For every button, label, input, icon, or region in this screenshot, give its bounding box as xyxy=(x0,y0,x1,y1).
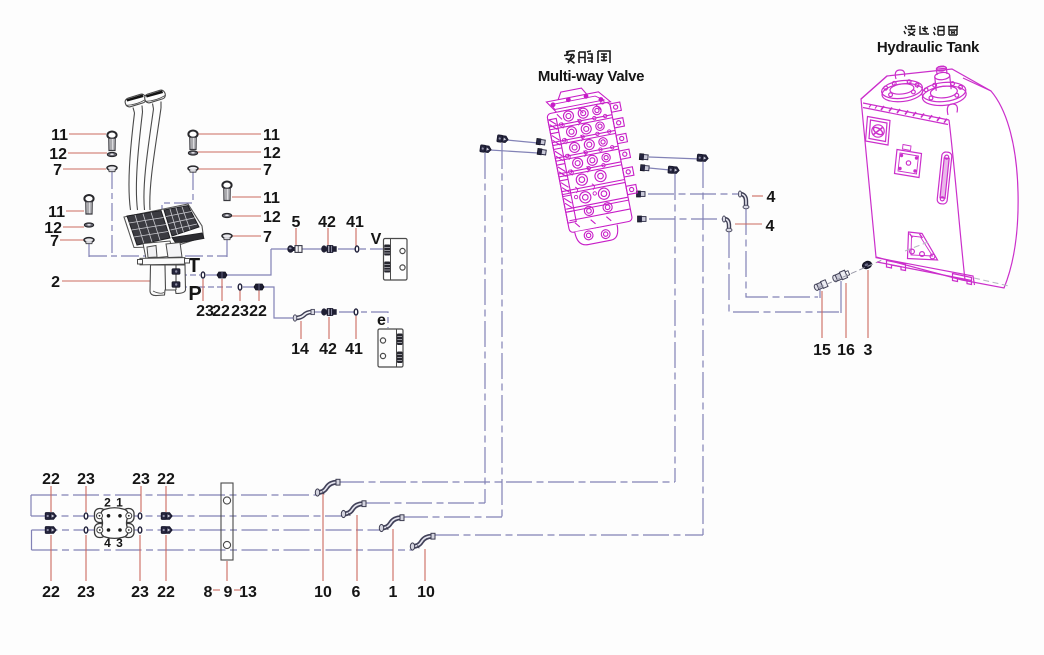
leader 4 lower xyxy=(735,223,762,225)
nut 7 top-right xyxy=(188,166,198,172)
svg-text:10: 10 xyxy=(314,584,332,601)
fitting elbow 6 xyxy=(341,501,366,518)
fitting valve right port A xyxy=(639,154,648,161)
svg-text:12: 12 xyxy=(263,145,281,162)
port bolt P on valve 2 xyxy=(172,282,180,288)
wire bolt alignment line top-right bolt xyxy=(162,172,193,211)
tank hook right xyxy=(947,104,957,115)
svg-text:15: 15 xyxy=(813,342,831,359)
wire T line solid xyxy=(206,249,271,275)
wire bottom hose line 3 xyxy=(32,529,384,531)
washer 12 top-left xyxy=(107,152,116,156)
leader 22 bottom-left bottom row 1 xyxy=(50,535,52,581)
fitting 23 ring line3 left xyxy=(84,527,88,533)
svg-text:23: 23 xyxy=(231,303,249,320)
leader 7 top-right xyxy=(198,168,261,170)
leader 10 first elbow xyxy=(322,493,324,581)
block V xyxy=(384,239,408,281)
svg-text:4: 4 xyxy=(767,189,776,206)
fitting on hose x502 top xyxy=(497,135,509,143)
wire valve right port B connector xyxy=(649,168,670,170)
leader 11 lower-left xyxy=(66,210,84,212)
svg-text:2: 2 xyxy=(51,274,60,291)
wire bottom hose line 1 xyxy=(31,494,318,496)
tank hook left xyxy=(895,70,904,79)
bolt 11 mid-right xyxy=(222,182,231,201)
washer 12 mid-right xyxy=(222,213,231,217)
svg-text:7: 7 xyxy=(263,229,272,246)
svg-text:23: 23 xyxy=(131,584,149,601)
leader 11 top-right xyxy=(198,133,261,135)
wire vertical hose x502 xyxy=(501,143,503,517)
leader 3 xyxy=(867,270,869,338)
tank bottom edge rim xyxy=(876,258,975,286)
svg-text:2: 2 xyxy=(104,496,111,510)
tank level gauge xyxy=(937,152,952,205)
fitting 23 ring line2 right xyxy=(138,513,142,519)
fitting 41 upper ring xyxy=(355,246,359,252)
svg-text:41: 41 xyxy=(346,214,364,231)
pedal plate dark edge wedge xyxy=(172,233,204,244)
leader 23 bottom-left bottom row 2 xyxy=(139,535,141,581)
fitting elbow 10 second xyxy=(410,533,435,550)
leader 12 lower-left xyxy=(63,226,84,228)
leader 16 xyxy=(845,283,847,338)
svg-text:11: 11 xyxy=(263,190,280,207)
wire V circuit line xyxy=(271,248,322,250)
fitting on hose x703 top xyxy=(697,154,709,162)
mounting bar 8 9 13 xyxy=(221,483,233,560)
fitting ring 23 on T line xyxy=(201,272,205,278)
wire vertical hose x485 xyxy=(484,153,486,503)
dashed line through fittings 15 16 3 to tank xyxy=(818,250,905,288)
leader 10 second elbow xyxy=(424,549,426,581)
fitting 22 dark on P line xyxy=(254,284,264,291)
leader 22 near P first xyxy=(221,279,223,301)
pedal mounting flange xyxy=(138,258,190,265)
leader 42 upper xyxy=(327,228,329,245)
wire U-turn left lines 1-2 xyxy=(30,495,32,516)
nut 7 lower-left xyxy=(84,238,94,244)
svg-text:22: 22 xyxy=(157,471,175,488)
svg-text:11: 11 xyxy=(48,204,65,221)
fitting 41 lower ring xyxy=(354,309,358,315)
wire V circuit dash to block V xyxy=(338,248,384,250)
leader 9 bar xyxy=(226,561,228,581)
manifold block bottom-left xyxy=(95,508,135,539)
svg-text:12: 12 xyxy=(263,209,281,226)
fitting 23 ring line2 left xyxy=(84,513,88,519)
leader 22 bottom-left top row 2 xyxy=(165,486,167,512)
svg-text:V: V xyxy=(371,231,382,248)
svg-text:8: 8 xyxy=(204,584,213,601)
svg-text:22: 22 xyxy=(157,584,175,601)
svg-text:7: 7 xyxy=(263,162,272,179)
svg-text:9: 9 xyxy=(224,584,233,601)
fitting elbow 4 upper xyxy=(738,191,749,209)
fitting elbow 10 first xyxy=(315,479,340,496)
wire P port dash xyxy=(181,286,233,288)
fitting 22 bottom-right line2 xyxy=(161,513,172,520)
leader 15 xyxy=(821,291,823,338)
fitting valve right port C xyxy=(637,191,646,197)
fitting on hose x485 top xyxy=(480,145,492,153)
svg-text:22: 22 xyxy=(249,303,267,320)
pedal handle right xyxy=(144,89,167,104)
wire elbow 10b to vertical x703 xyxy=(433,534,703,536)
tank bottom bracket xyxy=(908,232,938,260)
wire elbow 1 to vertical x502 xyxy=(402,516,502,518)
leader 42 lower xyxy=(328,317,330,339)
svg-text:16: 16 xyxy=(837,342,855,359)
multi-way valve assembly xyxy=(543,81,645,247)
leader 4 upper xyxy=(752,195,763,197)
bolt 11 top-right xyxy=(188,131,197,150)
tank foot right xyxy=(953,274,972,285)
wire bottom hose line 4 xyxy=(32,549,414,551)
leader 22 near P second xyxy=(258,290,260,301)
pedal base plate xyxy=(124,204,204,248)
fitting 42 lower xyxy=(321,308,337,316)
nut 7 top-left xyxy=(107,166,117,172)
svg-text:23: 23 xyxy=(77,584,95,601)
leader 41 upper xyxy=(355,228,357,246)
svg-text:12: 12 xyxy=(49,146,67,163)
wire T port dash xyxy=(181,274,200,276)
leader 7 top-left xyxy=(63,168,106,170)
fitting 22 bottom-left line2 left xyxy=(45,513,56,520)
wire elbow 6 to vertical x485 xyxy=(364,502,485,504)
tank front-right edge xyxy=(949,120,965,280)
leader 5 xyxy=(295,228,297,245)
fitting valve right port D xyxy=(638,216,647,222)
svg-text:13: 13 xyxy=(239,584,257,601)
port bolt T on valve 2 xyxy=(172,269,180,275)
pedal lever shafts xyxy=(129,113,135,210)
wire vertical hose x703 xyxy=(702,162,704,535)
wire hose elbow 4b down and right to fitting 16 xyxy=(729,232,839,312)
bolt 11 top-left xyxy=(107,132,116,151)
hydraulic tank xyxy=(861,64,1018,288)
svg-text:23: 23 xyxy=(132,471,150,488)
leader 7 mid-right xyxy=(232,235,261,237)
leader 1 elbow xyxy=(392,529,394,581)
wire e circuit line xyxy=(311,311,324,313)
leader 6 elbow xyxy=(356,515,358,581)
tank outline xyxy=(861,69,1018,288)
washer 12 top-right xyxy=(188,151,197,155)
title multi-way valve (chinese) 多路阀 drawn as strokes xyxy=(564,51,610,64)
nut 7 mid-right xyxy=(222,234,232,240)
wire vertical hose x675 xyxy=(674,174,676,482)
leader 12 mid-right xyxy=(232,215,261,217)
fitting valve right port B xyxy=(640,165,649,172)
wire pedal base line xyxy=(89,255,227,257)
svg-text:Hydraulic Tank: Hydraulic Tank xyxy=(877,39,980,56)
svg-text:5: 5 xyxy=(292,214,301,231)
leader 14 xyxy=(300,321,302,339)
fitting 3 flange nut xyxy=(861,260,873,270)
leader 23 bottom-left top row 2 xyxy=(140,486,142,512)
washer 12 lower-left xyxy=(84,223,93,227)
wire U-turn left lines 3-4 xyxy=(31,530,33,550)
svg-text:22: 22 xyxy=(42,471,60,488)
leader dash 8-9 xyxy=(213,589,220,591)
leader 23 near P second xyxy=(239,290,241,301)
tank foot left xyxy=(887,261,906,271)
svg-text:4: 4 xyxy=(766,218,775,235)
svg-text:22: 22 xyxy=(212,303,230,320)
svg-text:1: 1 xyxy=(389,584,398,601)
bolt 11 lower-left xyxy=(84,195,93,214)
svg-text:11: 11 xyxy=(263,127,280,144)
leader 2 xyxy=(62,280,155,282)
svg-text:7: 7 xyxy=(53,162,62,179)
pedal linkage brackets xyxy=(143,241,182,259)
title hydraulic tank (chinese) 液压油箱 drawn as strokes xyxy=(904,26,958,36)
wire bolt alignment line lower-left bolt xyxy=(88,244,90,257)
wire bottom hose line 2 xyxy=(31,515,345,517)
pedal pad left xyxy=(127,211,170,246)
svg-text:23: 23 xyxy=(77,471,95,488)
tank front-top seam xyxy=(863,103,949,125)
wire hose elbow 4a down and right to fitting 15 xyxy=(746,209,818,297)
leader 7 lower-left xyxy=(60,239,84,241)
fitting 22 bottom-left line3 left xyxy=(45,527,56,534)
wire valve right port A connector xyxy=(649,157,700,159)
fitting elbow 1 xyxy=(379,515,404,532)
valve body 2 under pedal xyxy=(150,265,186,296)
pedal pad right xyxy=(164,206,199,237)
leader 11 mid-right xyxy=(232,196,261,198)
svg-text:Multi-way Valve: Multi-way Valve xyxy=(538,68,644,85)
svg-text:6: 6 xyxy=(352,584,361,601)
wire valve left port 2 connector xyxy=(490,150,538,153)
svg-text:14: 14 xyxy=(291,341,309,358)
svg-text:P: P xyxy=(188,283,201,305)
tank filler cap assembly xyxy=(919,64,967,108)
leader 12 top-right xyxy=(197,151,261,153)
fitting elbow 14 xyxy=(293,309,314,321)
fitting 16 adapter xyxy=(832,269,851,283)
svg-text:41: 41 xyxy=(345,341,363,358)
leader 22 bottom-left bottom row 2 xyxy=(165,535,167,581)
leader 12 top-left xyxy=(68,152,107,154)
fitting 22 dark on T line xyxy=(217,272,227,279)
wire bolt alignment line top-left bolt xyxy=(111,171,113,256)
fitting 15 elbow xyxy=(813,280,828,292)
leader 23 bottom-left top row 1 xyxy=(85,486,87,512)
wire valve right port C to elbow 4a xyxy=(648,193,739,195)
svg-text:e: e xyxy=(377,312,386,329)
leader dash 9-13 xyxy=(234,589,241,591)
fitting 5 xyxy=(287,245,302,253)
svg-text:22: 22 xyxy=(42,584,60,601)
wire valve right port D to elbow 4b xyxy=(649,218,722,220)
fitting 22 bottom-right line3 xyxy=(161,527,172,534)
leader 22 bottom-left top row 1 xyxy=(50,486,52,512)
wire elbow 10a to vertical x675 xyxy=(338,481,675,483)
wire e circuit dash to block e xyxy=(339,312,388,328)
wire bolt alignment line mid-right bolt xyxy=(226,239,228,257)
leader 41 lower xyxy=(355,316,357,339)
fitting elbow 4 lower xyxy=(722,216,732,232)
fitting on hose x675 top xyxy=(668,166,680,174)
wire valve left port 1 connector xyxy=(507,140,538,143)
svg-text:42: 42 xyxy=(318,214,336,231)
leader 23 bottom-left bottom row 1 xyxy=(85,535,87,581)
fitting valve left port 2 xyxy=(537,148,546,155)
block e xyxy=(378,329,403,367)
pedal handle stems xyxy=(133,102,161,114)
leader 11 top-left xyxy=(69,133,106,135)
wire P line solid xyxy=(243,287,293,318)
tank flange left xyxy=(881,78,924,104)
tank access panel xyxy=(866,117,891,146)
tank top back edge xyxy=(861,76,991,99)
svg-text:42: 42 xyxy=(319,341,337,358)
fitting ring 23 on P line xyxy=(238,284,242,290)
svg-text:10: 10 xyxy=(417,584,435,601)
svg-text:11: 11 xyxy=(51,127,68,144)
tank middle panel xyxy=(895,145,922,178)
svg-text:7: 7 xyxy=(50,233,59,250)
svg-text:3: 3 xyxy=(864,342,873,359)
fitting 42 upper xyxy=(321,245,337,253)
fitting 23 ring line3 right xyxy=(138,527,142,533)
tank bracket dashed alignment lines xyxy=(905,242,1009,286)
pedal handle left xyxy=(124,93,147,108)
fitting valve left port 1 xyxy=(536,138,545,145)
leader 23 near P first xyxy=(202,279,204,301)
